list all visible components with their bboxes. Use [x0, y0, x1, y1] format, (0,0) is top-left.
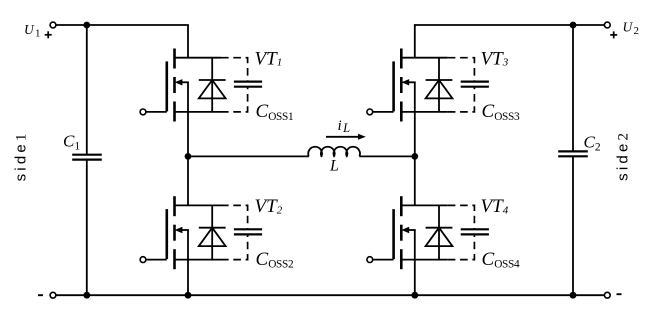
transistor VT2: gate terminal: [140, 257, 146, 263]
transistor VT2: drain lead: [175, 204, 222, 206]
terminal negative left: [50, 292, 56, 298]
svg-text:COSS4: COSS4: [482, 249, 521, 271]
transistor VT3: channel bar segments: [400, 49, 403, 122]
capacitor COSS4 plates: [461, 229, 489, 234]
transistor VT1: gate lead wire: [146, 111, 167, 113]
plus sign (U2 polarity): [610, 31, 617, 38]
wire: U1 terminal to VT1 drain (top-left rail): [56, 25, 188, 58]
transistor VT3: gate lead wire: [373, 111, 394, 113]
body diode of VT3: [426, 58, 453, 112]
transistor VT1: gate terminal: [140, 109, 146, 115]
svg-text:VT1: VT1: [255, 49, 283, 70]
transistor VT1: gate bar: [166, 61, 169, 111]
node: bottom rail / VT4 source: [411, 292, 418, 299]
svg-text:COSS3: COSS3: [482, 101, 521, 123]
dashed box of VT2: [221, 205, 248, 259]
capacitor C2 plates: [558, 151, 588, 156]
node: bottom rail / C1: [83, 292, 90, 299]
transistor VT2: body-source wire: [187, 230, 189, 260]
svg-text:C1: C1: [63, 132, 80, 153]
transistor VT4: drain lead: [401, 204, 448, 206]
node: left bridge midpoint: [185, 153, 192, 160]
transistor VT1: channel bar segments: [173, 49, 176, 122]
inductor L: [308, 147, 360, 157]
wire: VT1 source to mid node: [187, 112, 189, 156]
transistor VT4: body arrow: [401, 227, 415, 233]
svg-text:U2: U2: [623, 19, 639, 37]
transistor VT4: gate terminal: [367, 257, 373, 263]
svg-text:U1: U1: [24, 22, 40, 40]
wire: right mid node to VT4 drain: [414, 156, 416, 205]
transistor VT2: channel bar segments: [173, 196, 176, 269]
wire: VT3 source to right mid node: [414, 112, 416, 156]
transistor VT4: gate bar: [392, 209, 395, 259]
dashed box of VT1: [221, 58, 248, 112]
dashed box of VT4: [448, 205, 475, 259]
transistor VT1: source lead: [175, 111, 222, 113]
transistor VT4: gate lead wire: [373, 259, 394, 261]
transistor VT2: gate bar: [166, 209, 169, 259]
transistor VT3: drain lead: [401, 57, 448, 59]
node: right bridge midpoint: [411, 153, 418, 160]
transistor VT3: gate terminal: [367, 109, 373, 115]
transistor VT4: body-source wire: [414, 230, 416, 260]
wire: VT3 drain to U2 terminal (top-right rail): [415, 25, 605, 58]
plus sign (U1 polarity): [45, 31, 52, 38]
transistor VT1: body arrow: [175, 79, 189, 85]
wire: bottom rail: [56, 294, 605, 296]
body diode of VT1: [199, 58, 226, 112]
node: bottom rail / C2: [570, 292, 577, 299]
transistor VT3: body-source wire: [414, 82, 416, 112]
transistor VT3: source lead: [401, 111, 448, 113]
terminal negative right: [604, 292, 610, 298]
transistor VT4: channel bar segments: [400, 196, 403, 269]
svg-text:iL: iL: [338, 118, 351, 135]
transistor VT4: source lead: [401, 259, 448, 261]
svg-text:VT4: VT4: [481, 196, 509, 217]
svg-text:COSS2: COSS2: [256, 249, 295, 271]
transistor VT1: body-source wire: [187, 82, 189, 112]
transistor VT2: source lead: [175, 259, 222, 261]
capacitor COSS3 plates: [461, 82, 489, 87]
transistor VT1: drain lead: [175, 57, 222, 59]
wire: junction down to C1: [86, 25, 88, 155]
capacitor COSS2 plates: [234, 229, 262, 234]
transistor VT2: body arrow: [175, 227, 189, 233]
wire: VT4 source to bottom rail: [414, 260, 416, 296]
body diode of VT2: [199, 205, 226, 259]
capacitor C1 plates: [72, 155, 102, 160]
transistor VT3: gate bar: [392, 61, 395, 111]
transistor VT2: gate lead wire: [146, 259, 167, 261]
terminal U1 positive: [50, 22, 56, 28]
node: top-left rail / C1 junction: [83, 22, 90, 29]
capacitor COSS1 plates: [234, 82, 262, 87]
minus sign (left): [38, 294, 43, 296]
node: bottom rail / VT2 source: [185, 292, 192, 299]
wire: mid node to VT2 drain: [187, 156, 189, 205]
wire: VT2 source to bottom rail: [187, 260, 189, 296]
transistor VT3: body arrow: [401, 79, 415, 85]
svg-text:VT3: VT3: [481, 49, 509, 70]
wire: junction down to C2: [572, 25, 574, 151]
svg-text:COSS1: COSS1: [256, 101, 294, 123]
wire: inductor to right mid node: [359, 155, 414, 157]
wire: C2 to bottom rail: [572, 156, 574, 295]
body diode of VT4: [426, 205, 453, 259]
wire: left mid node to inductor: [188, 155, 309, 157]
wire: C1 to bottom rail: [86, 160, 88, 296]
node: top-right rail / C2 junction: [570, 22, 577, 29]
svg-text:side2: side2: [615, 130, 632, 181]
svg-text:C2: C2: [584, 133, 601, 154]
svg-text:VT2: VT2: [255, 196, 283, 217]
minus sign (right): [617, 293, 622, 295]
dashed box of VT3: [448, 58, 475, 112]
svg-text:L: L: [329, 158, 339, 175]
current arrow iL: [326, 134, 366, 140]
svg-text:side1: side1: [13, 130, 30, 181]
terminal U2 positive: [604, 22, 610, 28]
